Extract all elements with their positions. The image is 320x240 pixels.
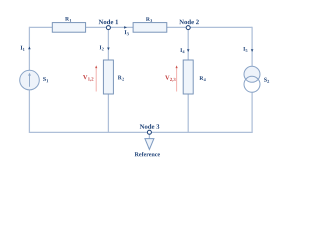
wire R2 down to bottom (107, 94, 109, 132)
label Reference (135, 152, 160, 156)
wire top: node 1 to R3 (110, 26, 133, 28)
node 1 circle (106, 26, 110, 30)
label R2 (118, 76, 124, 81)
label I1 (21, 46, 25, 51)
label Node 2 (179, 19, 199, 24)
current I3 arrowhead (124, 26, 127, 29)
resistor R1 (52, 23, 85, 33)
node 3 circle (147, 130, 151, 134)
source S1 (20, 70, 40, 90)
node 2 circle (186, 26, 190, 30)
label R4 (199, 76, 205, 81)
voltage arrow V1,2 head (95, 65, 97, 68)
label Node 1 (99, 19, 118, 24)
source S1 arrow (29, 75, 31, 87)
voltage arrow V1,2 line (95, 67, 97, 91)
resistor R3 (133, 23, 167, 33)
label S1 (43, 77, 48, 82)
wire bottom left of node 3 (29, 131, 147, 133)
current I4 arrowhead (187, 49, 190, 52)
wire top: R1 to node 1 (86, 26, 107, 28)
label V12 (83, 75, 93, 81)
wire top: R3 to node 2 (167, 26, 187, 28)
resistor R2 (103, 60, 113, 94)
label S2 (264, 78, 269, 83)
label I2 (100, 45, 104, 50)
current I1 arrowhead (28, 47, 31, 50)
wire left vertical lower (28, 90, 30, 133)
voltage arrow V2,3 head (176, 65, 178, 68)
wire left vertical upper (28, 27, 30, 70)
wire top: S1 to R1 (29, 26, 52, 28)
wire bottom right of node 3 (151, 131, 252, 133)
resistor R4 (183, 60, 193, 94)
wire node1 down to R2 (107, 29, 109, 60)
current I2 arrowhead (107, 48, 110, 51)
source S2 top circle (244, 66, 260, 82)
ground reference triangle (145, 139, 154, 150)
label I4 (180, 48, 184, 53)
wire top: node 2 to right corner (190, 26, 252, 28)
wire right vertical lower (251, 92, 253, 133)
current I5 arrowhead (251, 49, 254, 52)
label Node 3 (140, 124, 160, 129)
source S2 bottom circle (244, 76, 260, 92)
wire node3 stub to ground (148, 134, 150, 138)
wire right vertical upper (251, 27, 253, 67)
voltage arrow V2,3 line (176, 67, 178, 91)
label V23 (165, 76, 175, 82)
label I3 (125, 30, 129, 35)
label R3 (146, 17, 152, 22)
wire node2 down to R4 (187, 29, 189, 60)
label R1 (65, 17, 71, 22)
wire R4 down to bottom (187, 94, 189, 132)
label I5 (243, 47, 247, 52)
